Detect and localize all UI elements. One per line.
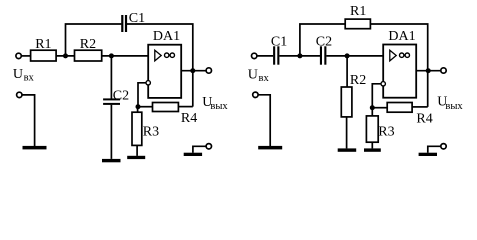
wire node down to R3 (right)	[371, 108, 373, 116]
wire R3 to ground (right)	[371, 142, 373, 148]
op-amp infinity symbol	[165, 53, 175, 57]
svg-text:DA1: DA1	[388, 29, 415, 44]
svg-text:R3: R3	[143, 124, 159, 139]
svg-text:DA1: DA1	[153, 29, 180, 44]
wire node up to top rail	[66, 24, 122, 56]
ground R3 right	[364, 148, 381, 151]
inverting input circle (right)	[381, 82, 385, 86]
wire R2 to ground	[346, 117, 348, 148]
wire R4 to output vertical (right)	[412, 106, 428, 108]
op-amp triangle symbol	[155, 50, 161, 61]
wire C1 to C2	[279, 55, 320, 57]
op-amp DA1 (left)	[148, 45, 181, 98]
wire node down to R2	[346, 56, 348, 87]
svg-text:C2: C2	[316, 34, 332, 49]
resistor R3 (right)	[366, 116, 378, 142]
wire C2 to op-amp input	[326, 55, 383, 57]
resistor R4 (right)	[387, 103, 412, 113]
wire R1 to R2	[56, 55, 75, 57]
capacitor C1 plates (left)	[121, 15, 123, 32]
wire lower output terminal to ground	[193, 146, 206, 152]
svg-text:вых: вых	[210, 101, 228, 112]
ground R2 right	[338, 148, 357, 151]
wire input to C1 (right)	[257, 55, 273, 57]
wire node down to R3	[137, 107, 139, 113]
wire op-amp output to terminal (right)	[416, 70, 441, 72]
wire node to R4 (right)	[372, 107, 387, 109]
wire R3 to ground	[136, 145, 138, 156]
junction dots left circuit	[63, 53, 68, 58]
wire node up to top rail to R1	[300, 24, 345, 56]
ground output left	[184, 153, 202, 156]
ground C2	[102, 159, 121, 162]
svg-text:вх: вх	[24, 72, 35, 83]
terminal circles right	[252, 53, 257, 58]
svg-text:R3: R3	[378, 124, 394, 139]
resistor R2	[75, 50, 102, 61]
ground input right	[258, 146, 282, 150]
capacitor C2 plates (left)	[103, 98, 120, 100]
wire C2 to ground	[110, 105, 112, 159]
wire R4 to output vertical	[178, 106, 192, 108]
capacitor C2 plates (right)	[320, 46, 322, 64]
svg-text:вых: вых	[445, 101, 463, 112]
svg-text:U: U	[13, 67, 23, 82]
wire R2 to op-amp input	[102, 55, 149, 57]
wire top rail after C1 down to output node	[127, 24, 193, 107]
svg-text:U: U	[248, 67, 258, 82]
wire lower output terminal to ground (right)	[428, 146, 441, 152]
svg-text:R4: R4	[181, 111, 197, 126]
wire lower input terminal to ground (right)	[258, 95, 270, 146]
wire node to R4	[138, 106, 153, 108]
svg-text:R2: R2	[350, 73, 366, 88]
inverting input circle	[146, 81, 150, 85]
terminal circles left	[16, 53, 21, 58]
resistor R1	[31, 50, 56, 61]
ground input left	[23, 146, 47, 150]
wire node down to C2	[110, 56, 112, 99]
junction dots right circuit	[297, 53, 302, 58]
svg-text:вх: вх	[259, 73, 270, 84]
wire input to R1 (left)	[22, 55, 32, 57]
svg-text:C2: C2	[113, 88, 129, 103]
svg-text:R2: R2	[80, 37, 96, 52]
resistor R3	[132, 112, 142, 145]
ground output right	[419, 153, 437, 156]
svg-text:C1: C1	[271, 34, 287, 49]
op-amp infinity symbol (right)	[400, 53, 410, 57]
wire inverting input to feedback node	[138, 83, 146, 107]
svg-text:R1: R1	[350, 4, 366, 19]
resistor R4	[153, 103, 179, 112]
svg-text:R4: R4	[416, 111, 432, 126]
svg-text:R1: R1	[35, 37, 51, 52]
capacitor C1 plates (right)	[273, 46, 275, 64]
wire R1 to output vertical	[370, 24, 427, 107]
wire inverting input to feedback node (right)	[372, 84, 381, 108]
wire lower input terminal to ground	[22, 95, 35, 146]
svg-text:C1: C1	[129, 11, 145, 26]
op-amp DA1 (right)	[383, 45, 416, 98]
wire op-amp output to terminal	[181, 70, 206, 72]
op-amp triangle symbol (right)	[390, 50, 396, 61]
ground R3	[127, 156, 145, 159]
resistor R2 (right, shunt)	[341, 87, 352, 117]
resistor R1 (right, top)	[345, 19, 370, 29]
